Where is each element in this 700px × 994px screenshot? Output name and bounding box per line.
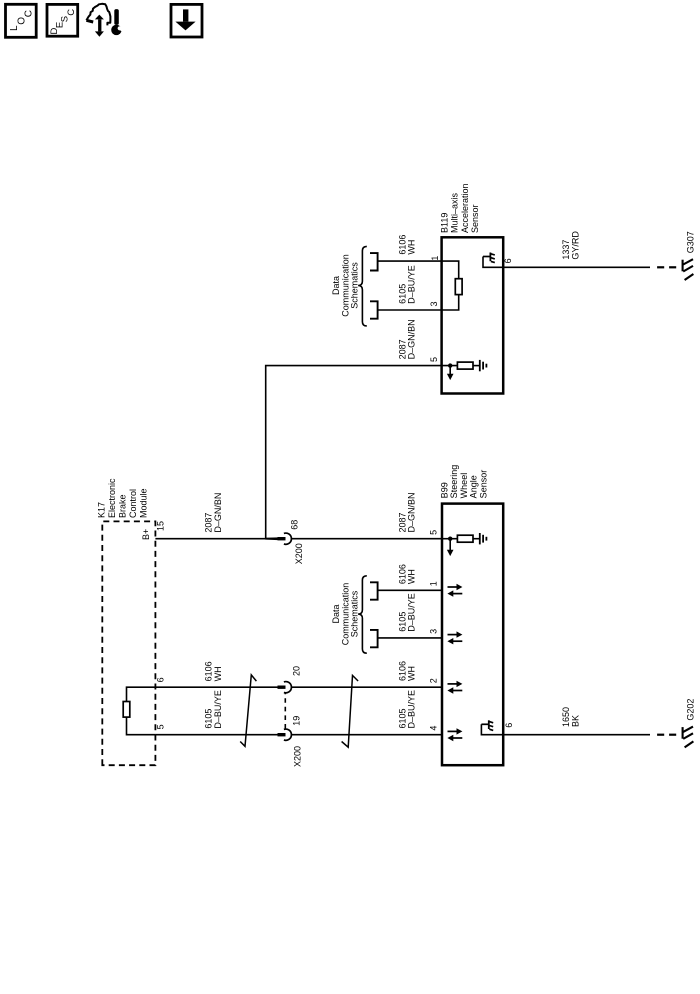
label wire 2087 D-GN/BN (at B119 pin 5) bbox=[397, 319, 416, 359]
off-page connector symbol (B99 pin 3 wire) bbox=[370, 630, 378, 647]
svg-text:Steering: Steering bbox=[449, 465, 459, 499]
wire taper at X200 pin 68 junction bbox=[265, 537, 278, 540]
wire resistor to ground symbol (B119 pin 5) bbox=[473, 365, 479, 367]
connector X200 pin 19 bbox=[278, 729, 292, 740]
svg-text:G307: G307 bbox=[685, 231, 695, 253]
wire 1650 from B99 pin 6 to G202 bbox=[503, 734, 650, 736]
label wire 6106 WH (segment A) bbox=[204, 661, 223, 681]
module K17 Electronic Brake Control Module (dashed box) bbox=[102, 521, 155, 765]
svg-text:WH: WH bbox=[407, 569, 417, 584]
label wire 6105 D-BU/YE (B119 pin 3) bbox=[397, 265, 416, 304]
svg-text:C: C bbox=[23, 10, 34, 17]
svg-text:D–BU/YE: D–BU/YE bbox=[407, 265, 417, 304]
svg-text:WH: WH bbox=[213, 666, 223, 681]
label wire 1650 BK bbox=[561, 707, 580, 727]
svg-text:Sensor: Sensor bbox=[470, 204, 480, 233]
wire 2087 from X200 to B99 pin 5 bbox=[291, 538, 442, 540]
bidirectional arrows (B99 pin 1) bbox=[447, 584, 462, 597]
wire 6105 from X200 to B99 pin 4 bbox=[291, 734, 442, 736]
icon download arrow button bbox=[171, 4, 202, 37]
svg-text:15: 15 bbox=[156, 521, 166, 531]
label wire 1337 GY/RD bbox=[561, 231, 580, 260]
svg-text:B99: B99 bbox=[440, 482, 450, 498]
signal ground symbol (B99 pin 5) bbox=[480, 533, 487, 544]
svg-text:4: 4 bbox=[429, 726, 439, 731]
label wire 6105 D-BU/YE (segment B) bbox=[397, 690, 416, 729]
svg-text:D–GN/BN: D–GN/BN bbox=[213, 493, 223, 533]
svg-text:19: 19 bbox=[291, 716, 301, 726]
svg-text:3: 3 bbox=[429, 629, 439, 634]
svg-text:X200: X200 bbox=[294, 543, 304, 564]
twisted pair symbol (segment A) bbox=[240, 675, 256, 746]
wire 6105 from K17 pin 5 to X200 bbox=[155, 734, 278, 736]
svg-text:Angle: Angle bbox=[469, 475, 479, 498]
svg-text:K17: K17 bbox=[97, 502, 107, 518]
bidirectional arrows (B99 pin 4) bbox=[447, 728, 462, 741]
brace (B99 data communication group) bbox=[358, 576, 367, 653]
svg-text:C: C bbox=[66, 9, 77, 16]
wire internal B99 pin 5 bbox=[442, 538, 458, 540]
wire 6106 from K17 pin 6 to X200 bbox=[155, 686, 278, 688]
ground G202 symbol bbox=[683, 727, 694, 748]
svg-text:L: L bbox=[9, 25, 20, 31]
svg-text:WH: WH bbox=[407, 666, 417, 681]
resistor internal B119 between pins 1 and 3 bbox=[442, 261, 462, 310]
off-page connector symbol (B119 pin 3 wire) bbox=[370, 301, 378, 318]
resistor internal to K17 between pins 6 and 5 bbox=[123, 687, 155, 735]
icon vehicle with arrows and wrench bbox=[86, 4, 124, 37]
svg-text:2: 2 bbox=[429, 678, 439, 683]
wire resistor to ground symbol (B99 pin 5) bbox=[473, 538, 479, 540]
off-page connector symbol (B119 pin 1 wire) bbox=[370, 253, 378, 270]
svg-text:BK: BK bbox=[571, 715, 581, 727]
svg-text:D–BU/YE: D–BU/YE bbox=[213, 690, 223, 729]
svg-text:D–GN/BN: D–GN/BN bbox=[407, 492, 417, 532]
svg-text:68: 68 bbox=[290, 520, 300, 530]
svg-text:WH: WH bbox=[407, 240, 417, 255]
svg-text:6: 6 bbox=[156, 677, 166, 682]
icon LOC button bbox=[6, 4, 37, 37]
icon DESC button bbox=[47, 4, 78, 36]
brace (B119 data communication group) bbox=[358, 246, 367, 326]
svg-text:Acceleration: Acceleration bbox=[460, 183, 470, 233]
svg-text:1: 1 bbox=[430, 256, 440, 261]
component B119 Multi-axis Acceleration Sensor (box) bbox=[442, 237, 504, 393]
label wire 6106 WH (segment B) bbox=[397, 661, 416, 681]
label K17 title bbox=[97, 478, 149, 518]
svg-text:Brake: Brake bbox=[118, 494, 128, 518]
connector link dashed X200 bbox=[284, 693, 286, 729]
svg-text:Electronic: Electronic bbox=[107, 478, 117, 518]
wire 6105 from connector symbol to B99 pin 3 bbox=[378, 637, 442, 639]
bidirectional arrows (B99 pin 3) bbox=[447, 631, 462, 644]
junction dot (B119 pin 5 internal) bbox=[448, 363, 452, 367]
svg-text:3: 3 bbox=[429, 301, 439, 306]
svg-text:S: S bbox=[60, 16, 71, 22]
off-page connector symbol (B99 pin 1 wire) bbox=[370, 582, 378, 599]
svg-text:Wheel: Wheel bbox=[459, 473, 469, 499]
label wire 2087 D-GN/BN (at B99 pin 5) bbox=[397, 492, 416, 532]
label wire 6106 WH (B99 pin 1) bbox=[397, 564, 416, 584]
wire 6106 from X200 to B99 pin 2 bbox=[291, 686, 442, 688]
svg-text:D–GN/BN: D–GN/BN bbox=[407, 319, 417, 359]
svg-text:1: 1 bbox=[429, 581, 439, 586]
svg-text:5: 5 bbox=[429, 357, 439, 362]
wire dashed portion to G202 bbox=[657, 734, 664, 736]
wire 6106 from connector symbol to B99 pin 1 bbox=[378, 589, 442, 591]
svg-text:5: 5 bbox=[429, 530, 439, 535]
wire branch to B119 pin 5 bbox=[266, 366, 442, 539]
connector X200 pin 20 bbox=[278, 682, 292, 693]
svg-text:6: 6 bbox=[504, 723, 514, 728]
svg-text:G202: G202 bbox=[685, 699, 695, 721]
wire 1337 from B119 pin 6 to G307 bbox=[503, 266, 650, 268]
label B119 title bbox=[439, 183, 480, 233]
Data Communication Schematics label (B119 group) bbox=[331, 254, 360, 317]
signal ground symbol (B119 pin 5) bbox=[480, 360, 487, 371]
label wire 2087 D-GN/BN (segment A) bbox=[204, 493, 223, 533]
chassis ground internal (B119 pin 6) bbox=[483, 253, 503, 268]
svg-text:Module: Module bbox=[139, 488, 149, 518]
label wire 6106 WH (B119 pin 1) bbox=[397, 235, 416, 255]
svg-text:6: 6 bbox=[503, 258, 513, 263]
label B99 title bbox=[440, 465, 489, 499]
svg-text:B+: B+ bbox=[141, 529, 151, 540]
junction dot (B99 pin 5 internal) bbox=[448, 537, 452, 541]
resistor internal (B119 pin 5) bbox=[457, 362, 473, 369]
internal output arrow (B119 pin 5) bbox=[447, 366, 454, 381]
wire 2087 from K17 pin 15 to X200 bbox=[155, 538, 278, 540]
svg-text:D–BU/YE: D–BU/YE bbox=[407, 690, 417, 729]
connector X200 pin 68 bbox=[278, 533, 292, 544]
internal output arrow (B99 pin 5) bbox=[447, 539, 454, 556]
svg-text:Control: Control bbox=[128, 489, 138, 518]
wire dashed portion to G307 bbox=[657, 266, 664, 268]
svg-text:Sensor: Sensor bbox=[478, 470, 488, 499]
label wire 6105 D-BU/YE (B99 pin 3) bbox=[397, 593, 416, 632]
ground G307 symbol bbox=[683, 259, 694, 280]
chassis ground internal (B99 pin 6) bbox=[481, 720, 503, 734]
wire 6106 from connector symbol to B119 pin 1 bbox=[378, 260, 442, 262]
twisted pair symbol (segment B) bbox=[342, 675, 359, 747]
bidirectional arrows (B99 pin 2) bbox=[447, 681, 462, 694]
svg-text:B119: B119 bbox=[439, 213, 449, 233]
label wire 6105 D-BU/YE (segment A) bbox=[204, 690, 223, 729]
svg-text:Multi–axis: Multi–axis bbox=[450, 192, 460, 233]
Data Communication Schematics label (B99 group) bbox=[331, 583, 360, 646]
svg-text:D–BU/YE: D–BU/YE bbox=[407, 593, 417, 632]
svg-text:20: 20 bbox=[291, 666, 301, 676]
wire internal B119 pin 5 bbox=[442, 365, 458, 367]
svg-text:GY/RD: GY/RD bbox=[571, 231, 581, 260]
component B99 Steering Wheel Angle Sensor (box) bbox=[442, 504, 503, 766]
svg-text:X200: X200 bbox=[292, 746, 302, 767]
resistor internal (B99 pin 5) bbox=[457, 535, 473, 542]
wire 6105 from connector symbol to B119 pin 3 bbox=[378, 309, 442, 311]
svg-text:5: 5 bbox=[156, 724, 166, 729]
